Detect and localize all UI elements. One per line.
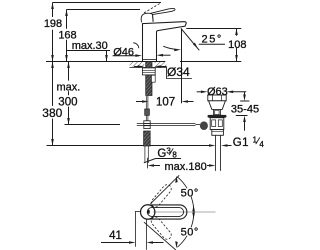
- svg-text:max.: max.: [56, 81, 80, 93]
- svg-text:max.180: max.180: [165, 161, 207, 173]
- svg-text:50°: 50°: [181, 187, 199, 199]
- svg-text:198: 198: [44, 18, 62, 30]
- svg-text:max.30: max.30: [72, 40, 108, 52]
- svg-text:Ø46: Ø46: [113, 47, 134, 59]
- svg-text:G1 1⁄4: G1 1⁄4: [233, 135, 265, 149]
- svg-text:Ø34: Ø34: [167, 65, 190, 79]
- svg-text:380: 380: [42, 106, 62, 120]
- svg-text:107: 107: [156, 97, 175, 109]
- svg-text:35-45: 35-45: [231, 104, 259, 116]
- svg-text:25°: 25°: [202, 34, 223, 46]
- svg-text:41: 41: [109, 230, 122, 242]
- svg-text:50°: 50°: [181, 227, 199, 239]
- svg-text:108: 108: [228, 39, 246, 51]
- svg-text:Ø63: Ø63: [207, 86, 228, 98]
